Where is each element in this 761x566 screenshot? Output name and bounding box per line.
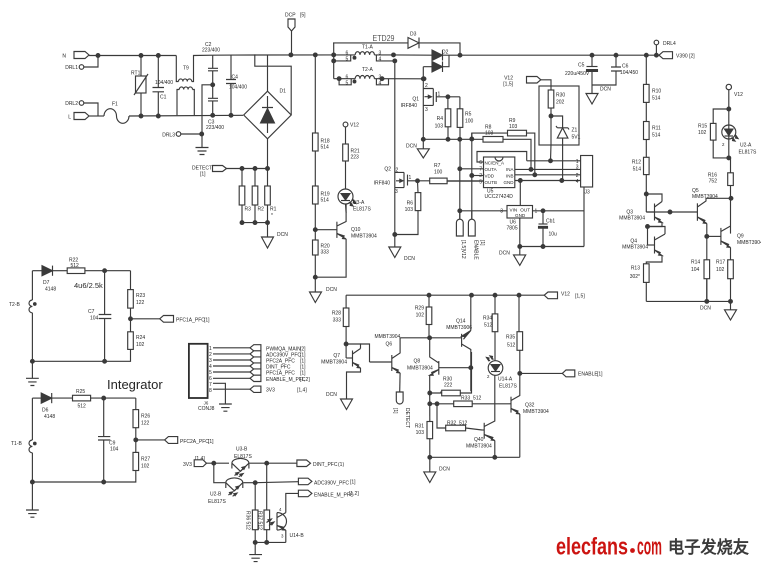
- transistor Q8 MMBT3904: [407, 338, 473, 391]
- svg-text:DCN: DCN: [406, 144, 417, 150]
- terminal V12 right: [726, 84, 743, 125]
- earth ground under T1-B: [26, 482, 39, 517]
- wire Q7 collector to Q6 base: [361, 344, 370, 362]
- svg-text:*: *: [271, 213, 273, 219]
- svg-text:R3: R3: [245, 207, 252, 213]
- wire Q3 base row to Q5: [646, 211, 697, 213]
- svg-text:103: 103: [435, 124, 444, 130]
- svg-text:Z1: Z1: [572, 128, 578, 134]
- svg-text:Q1: Q1: [412, 97, 419, 103]
- svg-text:Integrator: Integrator: [107, 377, 163, 392]
- svg-text:R12: R12: [632, 160, 641, 166]
- wire pin3: [213, 359, 250, 361]
- svg-text:[1]: [1]: [479, 240, 485, 246]
- port ADC390V_PFC [1] right: [255, 478, 356, 486]
- svg-text:Q2: Q2: [384, 167, 391, 173]
- svg-text:DCN: DCN: [499, 251, 510, 257]
- connector CONJ8: [189, 344, 215, 412]
- transistor Q5 MMBT3904: [692, 188, 731, 301]
- svg-text:INB: INB: [506, 174, 514, 179]
- svg-text:U2-A: U2-A: [740, 143, 752, 149]
- svg-text:4148: 4148: [45, 287, 56, 293]
- resistor R18 514: [313, 55, 330, 151]
- svg-text:R27: R27: [141, 457, 150, 463]
- svg-text:V12: V12: [734, 92, 743, 98]
- connector J3: [576, 156, 593, 196]
- svg-text:DCN: DCN: [439, 467, 450, 473]
- svg-text:DRL1: DRL1: [65, 65, 78, 71]
- port V390 [2]: [659, 52, 695, 60]
- earth ground pin7: [219, 404, 232, 411]
- wire L lower rail: [129, 114, 243, 117]
- resistor R30 202: [548, 90, 565, 145]
- svg-text:VIN: VIN: [510, 208, 518, 213]
- resistor R14 104: [691, 260, 710, 302]
- opto U2-A LED: [722, 125, 757, 160]
- diode D2 (dual): [423, 50, 460, 73]
- svg-text:IRF840: IRF840: [374, 181, 391, 187]
- svg-text:ENABLE: ENABLE: [578, 372, 598, 378]
- svg-text:202: 202: [556, 100, 565, 106]
- svg-text:[2]: [2]: [300, 346, 306, 352]
- svg-text:R1: R1: [270, 207, 277, 213]
- svg-text:8: 8: [209, 388, 212, 394]
- mosfet Q2 IRF840: [374, 61, 418, 247]
- wire opto bottom rail: [255, 541, 286, 543]
- wire right bottom rail: [646, 300, 730, 302]
- port PWMQA_MAIN [2]: [250, 345, 306, 353]
- svg-text:512: 512: [507, 343, 516, 349]
- svg-text:[1,4]: [1,4]: [297, 388, 307, 394]
- resistor R26 122: [133, 398, 150, 452]
- resistor R22 512: [67, 258, 130, 274]
- diode D6 4148: [32, 393, 72, 420]
- node junctions top rail: [139, 54, 143, 58]
- svg-text:3: 3: [395, 189, 398, 195]
- transistor Q3 MMBT3904 (diode connected): [619, 194, 662, 223]
- node detect taps: [240, 167, 244, 171]
- svg-text:ADC390V_PFC: ADC390V_PFC: [266, 352, 301, 358]
- wire VIN line: [460, 210, 507, 212]
- svg-text:DCN: DCN: [277, 232, 288, 238]
- svg-text:[1,2]: [1,2]: [300, 377, 310, 383]
- svg-text:512: 512: [473, 396, 482, 402]
- svg-text:R36 512: R36 512: [245, 511, 251, 530]
- capacitor C7 104: [88, 271, 111, 362]
- terminal DRL3: [162, 132, 203, 139]
- transistor Q6 MMBT3904: [370, 334, 401, 392]
- svg-text:R10: R10: [652, 89, 661, 95]
- svg-text:Q32: Q32: [525, 403, 535, 409]
- resistor R1: [265, 169, 277, 223]
- svg-text:N: N: [62, 54, 66, 60]
- resistor R36 512 (vertical text): [245, 481, 259, 542]
- svg-text:Q8: Q8: [414, 359, 421, 365]
- svg-text:OUT: OUT: [520, 208, 530, 213]
- capacitor C1 104/400: [153, 56, 174, 117]
- svg-text:3: 3: [576, 165, 579, 171]
- svg-text:DCP: DCP: [285, 13, 296, 19]
- svg-text:4: 4: [576, 179, 579, 185]
- wire L to fuse: [89, 115, 104, 117]
- svg-text:223/400: 223/400: [206, 125, 224, 131]
- svg-text:[1]: [1]: [350, 480, 356, 486]
- port V12 [1,5] right flag: [544, 292, 585, 300]
- resistor R8 103: [483, 125, 531, 170]
- svg-text:V12: V12: [561, 292, 570, 298]
- svg-text:5: 5: [479, 180, 482, 186]
- svg-text:MMBT3904: MMBT3904: [375, 334, 401, 340]
- svg-text:102: 102: [698, 130, 707, 136]
- svg-text:100: 100: [434, 170, 443, 176]
- svg-text:DINT_PFC: DINT_PFC: [313, 462, 338, 468]
- resistor R17 102: [716, 248, 733, 302]
- ground DCN under Q2: [389, 247, 415, 262]
- capacitor C9 104: [98, 398, 119, 482]
- svg-text:4: 4: [379, 80, 382, 86]
- svg-text:[1]: [1]: [392, 408, 398, 414]
- svg-text:3: 3: [500, 209, 503, 215]
- resistor R12 514: [632, 157, 649, 212]
- port V12 [1,5] top: [503, 76, 551, 91]
- svg-text:MMBT3904: MMBT3904: [321, 360, 347, 366]
- svg-text:(1): (1): [338, 462, 344, 468]
- svg-text:R11: R11: [652, 126, 661, 132]
- opto U3-A LED: [338, 189, 371, 213]
- svg-text:3V3: 3V3: [183, 462, 192, 468]
- svg-text:MMBT3904: MMBT3904: [523, 409, 549, 415]
- port DINT_PFC [1]: [250, 363, 306, 371]
- rail continues over bridge: [254, 54, 333, 56]
- svg-text:elecfans: elecfans: [556, 534, 628, 561]
- svg-text:DCN: DCN: [326, 392, 337, 398]
- port 3V3 [1,4]: [250, 386, 307, 394]
- svg-text:PFC1A_PFC: PFC1A_PFC: [266, 371, 295, 377]
- fuse F1: [104, 102, 129, 124]
- resistor R37 512 (vertical text): [257, 463, 270, 542]
- node PFC2A tap: [134, 438, 138, 442]
- node DCP tap: [289, 53, 293, 57]
- terminal V12 left: [343, 122, 359, 144]
- port ENABLE_M_PFC [1,2]: [250, 375, 310, 383]
- svg-text:5: 5: [346, 56, 349, 62]
- wire R18 to R19: [314, 151, 316, 186]
- svg-text:102: 102: [141, 464, 150, 470]
- resistor R10 514: [644, 55, 662, 121]
- svg-text:302*: 302*: [630, 274, 640, 280]
- svg-text:5: 5: [346, 80, 349, 86]
- svg-text:PFC2A_PFC: PFC2A_PFC: [180, 439, 209, 445]
- wire VDD row: [472, 175, 484, 177]
- svg-text:R35: R35: [506, 335, 515, 341]
- svg-text:T2-B: T2-B: [9, 302, 21, 308]
- resistor R5 100: [457, 97, 473, 169]
- transistor Q9 MMBT3904: [707, 226, 761, 248]
- watermark elecfans.com: [556, 534, 749, 561]
- svg-text:RT1: RT1: [131, 71, 141, 77]
- svg-text:514: 514: [321, 145, 330, 151]
- svg-text:U14-B: U14-B: [290, 533, 305, 539]
- node C2-C3 midpoint: [211, 83, 215, 87]
- svg-text:IRF840: IRF840: [401, 103, 418, 109]
- svg-text:[1,5]: [1,5]: [575, 294, 585, 300]
- svg-text:7: 7: [479, 167, 482, 173]
- svg-text:ENABLE: ENABLE: [473, 240, 479, 260]
- resistor R25 512: [73, 389, 136, 410]
- wire pin7 to ground: [213, 383, 225, 404]
- wire bridge bottom to detect node: [267, 139, 269, 169]
- wire V12 net: [346, 294, 544, 296]
- svg-text:512: 512: [484, 323, 493, 329]
- svg-text:3: 3: [425, 107, 428, 113]
- terminal DRL4: [654, 40, 676, 57]
- node junctions lower rail: [139, 114, 143, 118]
- svg-text:R17: R17: [716, 260, 725, 266]
- svg-text:6: 6: [479, 160, 482, 166]
- svg-text:R14: R14: [691, 260, 700, 266]
- svg-text:222: 222: [444, 383, 453, 389]
- svg-text:[1]: [1]: [204, 318, 210, 324]
- svg-text:T1-B: T1-B: [11, 441, 23, 447]
- wire pin2: [213, 353, 250, 355]
- node Q10 base tap: [313, 228, 317, 232]
- svg-text:D7: D7: [43, 280, 50, 286]
- svg-text:EL817S: EL817S: [499, 384, 517, 390]
- transformer T1-A: [334, 45, 397, 63]
- svg-text:PWMQA_MAIN: PWMQA_MAIN: [266, 346, 301, 352]
- resistor R33 512: [428, 391, 510, 421]
- wire V12 drop column: [459, 169, 461, 219]
- diode D3: [333, 32, 460, 56]
- svg-text:R2: R2: [258, 207, 265, 213]
- port 3V3 [1,4] left: [183, 456, 229, 468]
- transistor Q10 MMBT3904: [315, 204, 377, 278]
- svg-text:DRL4: DRL4: [663, 41, 676, 47]
- regulator U6 7805: [500, 206, 537, 255]
- wire Q14 base row: [400, 337, 462, 339]
- svg-text:104: 104: [90, 316, 99, 322]
- resistor R7 100: [416, 163, 484, 184]
- resistor R24 102: [32, 332, 145, 362]
- svg-text:C1: C1: [160, 95, 167, 101]
- port V12 [1,5] vertical flag: [456, 211, 466, 259]
- node ENABLE junction: [518, 372, 522, 376]
- wire top rail to T windings: [333, 43, 335, 79]
- wire ENABLE to flag: [520, 372, 563, 374]
- opto U14-B phototransistor: [267, 507, 305, 542]
- svg-text:DCN: DCN: [600, 87, 611, 93]
- diode D7 4148: [32, 266, 67, 293]
- capacitor C4 104/400: [226, 55, 247, 115]
- svg-text:L: L: [68, 115, 71, 121]
- node R20 bottom: [313, 275, 317, 279]
- svg-text:7805: 7805: [507, 226, 518, 232]
- port L: [68, 113, 89, 121]
- wire R30 column to row1: [550, 145, 553, 161]
- svg-text:3V3: 3V3: [266, 388, 275, 394]
- svg-text:223: 223: [351, 155, 360, 161]
- svg-text:104/400: 104/400: [155, 80, 173, 86]
- resistor R27 102: [32, 452, 150, 482]
- svg-text:102: 102: [716, 267, 725, 273]
- port PFC2A_PFC [1]: [136, 437, 214, 445]
- resistor R30b 222: [428, 352, 472, 396]
- wire OUTA row: [460, 168, 484, 170]
- port ENABLE [1] right: [562, 370, 603, 378]
- svg-text:OUTA: OUTA: [485, 167, 497, 172]
- svg-text:R24: R24: [136, 335, 145, 341]
- wire GND return to connector: [520, 187, 584, 247]
- svg-text:R23: R23: [136, 293, 145, 299]
- wire 3V3 down to U2-B: [214, 463, 226, 483]
- svg-text:R31: R31: [415, 424, 424, 430]
- earth ground below DRL3: [196, 148, 209, 155]
- wire bottom cluster rail: [430, 456, 520, 458]
- transistor Q14 MMBT3906: [446, 295, 472, 391]
- node lower integrator bottom: [102, 480, 106, 484]
- svg-text:R37 512: R37 512: [257, 511, 263, 530]
- svg-text:103: 103: [509, 124, 518, 130]
- svg-text:104: 104: [110, 447, 119, 453]
- transistor Q4 MMBT3904 (diode connected): [622, 223, 665, 264]
- svg-text:[1]: [1]: [200, 172, 206, 178]
- svg-text:U3-A: U3-A: [353, 200, 365, 206]
- capacitor C3 223/400: [206, 85, 224, 131]
- port ENABLE_M_PFC [1,2] right: [286, 490, 360, 512]
- svg-text:C5: C5: [578, 63, 585, 69]
- svg-text:4148: 4148: [44, 414, 55, 420]
- resistor R34 512: [483, 295, 498, 360]
- svg-text:5V1: 5V1: [572, 135, 581, 141]
- ground DCN right: [700, 301, 737, 320]
- svg-text:122: 122: [141, 421, 150, 427]
- wire ENABLE drop column: [471, 133, 473, 219]
- wire OUTB row to R7: [447, 180, 483, 182]
- port ADC390V_PFC [1]: [250, 351, 306, 359]
- svg-text:V12: V12: [350, 123, 359, 129]
- wire bridge top tap: [267, 55, 269, 91]
- svg-text:T1-A: T1-A: [362, 45, 374, 51]
- svg-text:F1: F1: [112, 102, 118, 108]
- svg-text:ADC390V_PFC: ADC390V_PFC: [314, 481, 349, 487]
- transformer T2-A: [334, 67, 424, 86]
- svg-text:10u: 10u: [549, 232, 558, 238]
- opto U2-B phototransistor: [208, 478, 257, 505]
- ground DCN triangle: [262, 232, 289, 248]
- svg-text:PFC1A_PFC: PFC1A_PFC: [176, 318, 205, 324]
- svg-text:R15: R15: [698, 124, 707, 130]
- wire GND row: [515, 180, 581, 182]
- resistor R6 103: [393, 181, 421, 237]
- svg-text:102: 102: [416, 313, 425, 319]
- svg-text:104/400: 104/400: [229, 85, 247, 91]
- resistor R32 512: [437, 404, 482, 431]
- resistor R3: [239, 169, 251, 223]
- svg-text:514: 514: [633, 167, 642, 173]
- wire routing box around R30 Z1: [539, 86, 579, 145]
- wire pin4: [213, 365, 250, 367]
- svg-text:T2-A: T2-A: [362, 67, 374, 73]
- svg-text:752: 752: [709, 179, 718, 185]
- wire pin1: [213, 347, 250, 349]
- svg-text:DRL2: DRL2: [65, 101, 78, 107]
- ground DCN under C5: [586, 85, 611, 104]
- svg-text:Q40: Q40: [474, 437, 484, 443]
- svg-text:104: 104: [691, 267, 700, 273]
- wire OUT line: [533, 210, 585, 212]
- wire midpoint to DRL3 ground: [202, 85, 213, 148]
- port ENABLE [1] vertical flag: [468, 211, 485, 261]
- node T2 return: [422, 77, 426, 81]
- wire top rail to bridge step: [213, 55, 292, 115]
- bridge rectifier D1: [244, 89, 292, 139]
- resistor R15 102: [698, 109, 729, 158]
- svg-text:[1,2]: [1,2]: [349, 491, 359, 497]
- svg-text:D1: D1: [280, 89, 287, 95]
- svg-text:512: 512: [78, 404, 87, 410]
- port DETECT [1] vertical flag: [392, 392, 410, 428]
- svg-text:R25: R25: [76, 389, 85, 395]
- capacitor C2 223/400: [202, 42, 220, 85]
- resistor R21 223: [343, 144, 360, 189]
- svg-text:103: 103: [405, 207, 414, 213]
- wire pin5: [213, 371, 250, 373]
- node N junction: [96, 54, 100, 58]
- svg-text:MMBT3906: MMBT3906: [446, 325, 472, 331]
- svg-text:R4: R4: [437, 116, 444, 122]
- svg-text:ETD29: ETD29: [373, 33, 395, 43]
- transformer winding T2-B: [9, 271, 36, 362]
- svg-text:U2-B: U2-B: [210, 492, 222, 498]
- svg-text:[5]: [5]: [300, 13, 306, 19]
- svg-text:Q10: Q10: [351, 227, 361, 233]
- svg-text:R5: R5: [465, 112, 472, 118]
- svg-text:U3-B: U3-B: [236, 447, 248, 453]
- svg-text:DCN: DCN: [404, 256, 415, 262]
- svg-text:4: 4: [379, 56, 382, 62]
- svg-text:MMBT3904: MMBT3904: [622, 245, 648, 251]
- svg-text:R13: R13: [631, 266, 640, 272]
- resistor R19 514: [313, 186, 330, 240]
- wire row1 to connector: [527, 160, 581, 162]
- svg-text:R6: R6: [407, 201, 414, 207]
- svg-text:MMBT3904: MMBT3904: [351, 234, 377, 240]
- svg-text:U14-A: U14-A: [498, 377, 513, 383]
- ground DCN under cluster: [424, 457, 450, 482]
- resistor R31 103: [415, 422, 433, 458]
- svg-text:com: com: [637, 534, 662, 561]
- inductor T9 common-mode choke: [176, 55, 212, 115]
- port PFC1A_PFC [1]: [250, 369, 306, 377]
- svg-text:[1,5]V12: [1,5]V12: [460, 240, 466, 259]
- wire INA row: [515, 168, 581, 170]
- svg-text:ENABLE_M_PFC: ENABLE_M_PFC: [314, 493, 354, 499]
- earth ground opto section: [249, 542, 262, 561]
- svg-text:电子发烧友: 电子发烧友: [668, 537, 749, 557]
- ground DCN under Q1: [406, 139, 429, 158]
- ground DCN under 7805: [499, 251, 526, 266]
- node R12 bottom: [644, 192, 648, 196]
- svg-text:MMBT3904: MMBT3904: [466, 444, 492, 450]
- svg-text:C7: C7: [88, 309, 95, 315]
- transistor Q32 MMBT3904: [510, 373, 550, 457]
- port DCP [5]: [285, 13, 306, 55]
- svg-text:OUTB: OUTB: [485, 180, 498, 185]
- svg-text:102: 102: [136, 342, 145, 348]
- zener Z1 5V1: [551, 116, 581, 181]
- svg-text:333: 333: [321, 250, 330, 256]
- svg-text:DRL3: DRL3: [162, 133, 175, 139]
